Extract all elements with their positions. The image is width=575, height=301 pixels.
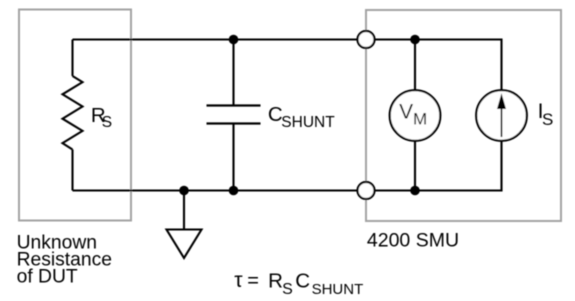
- resistor R_S leads: [71, 40, 73, 77]
- terminal bottom (open circle): [358, 182, 375, 199]
- current source I_S arrowhead: [497, 93, 506, 109]
- ground: [167, 230, 202, 259]
- svg-text:SHUNT: SHUNT: [312, 281, 364, 298]
- ground stem: [183, 191, 185, 230]
- svg-text:V: V: [399, 100, 413, 123]
- current source I_S arrow shaft: [501, 106, 503, 137]
- svg-text:S: S: [282, 281, 293, 298]
- wire bottom: [73, 140, 502, 191]
- node: cap bottom junction: [229, 186, 239, 196]
- node: cap top junction: [229, 35, 239, 45]
- resistor R_S zigzag: [63, 76, 83, 150]
- capacitor C_SHUNT plates: [207, 104, 261, 106]
- svg-text:M: M: [413, 109, 427, 128]
- svg-text:τ: τ: [234, 269, 243, 292]
- svg-text:C: C: [295, 269, 310, 292]
- svg-text:R: R: [268, 269, 283, 292]
- capacitor C_SHUNT leads: [232, 40, 234, 106]
- svg-text:of DUT: of DUT: [17, 267, 78, 288]
- svg-text:4200 SMU: 4200 SMU: [367, 229, 459, 251]
- voltmeter V_M circle: [390, 90, 441, 141]
- svg-text:S: S: [102, 114, 112, 131]
- DUT box: [19, 10, 131, 221]
- node: ground junction: [179, 186, 189, 196]
- node: V_M bottom junction: [410, 186, 420, 196]
- svg-text:SHUNT: SHUNT: [281, 114, 335, 131]
- wire top: [73, 40, 502, 91]
- node: V_M top junction: [410, 35, 420, 45]
- svg-text:=: =: [247, 270, 259, 292]
- current source I_S circle: [476, 90, 527, 141]
- voltmeter V_M leads: [414, 40, 416, 91]
- SMU box: [366, 10, 561, 221]
- terminal top (open circle): [358, 31, 375, 48]
- svg-text:S: S: [542, 110, 553, 129]
